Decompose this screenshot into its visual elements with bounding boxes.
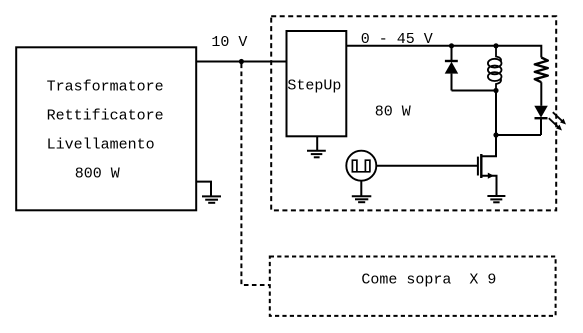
svg-text:Trasformatore: Trasformatore: [47, 79, 164, 96]
wire 10V from B1 to StepUp: [196, 61, 286, 63]
svg-text:Rettificatore: Rettificatore: [47, 108, 164, 125]
node junction at inductor top: [493, 43, 498, 48]
transistor Q1 N-MOSFET: [478, 135, 497, 196]
node junction at diode top: [449, 43, 454, 48]
svg-text:10 V: 10 V: [211, 34, 247, 51]
node junction at inductor bottom: [493, 88, 498, 93]
wire node to MOSFET drain: [495, 135, 497, 156]
dashed box Come sopra X 9: [270, 257, 556, 316]
wire inductor bottom to drain node: [495, 91, 497, 136]
wire diode bottom to inductor bottom: [452, 90, 497, 92]
ground at pulse source: [352, 181, 372, 203]
wire resistor to LED: [540, 82, 542, 106]
wire LED bottom to drain node: [496, 134, 541, 136]
node junction at LED return / drain: [493, 132, 498, 137]
svg-text:80 W: 80 W: [375, 104, 411, 121]
resistor R1: [535, 58, 548, 83]
LED D2 (pointing down): [534, 106, 566, 135]
pulse source V1 (square-wave generator): [346, 151, 376, 181]
svg-text:Livellamento: Livellamento: [47, 136, 155, 153]
LED emission arrow 1: [553, 112, 563, 121]
svg-text:StepUp: StepUp: [287, 78, 341, 95]
node junction on 10V wire: [239, 59, 244, 64]
wire gate drive: [376, 165, 478, 167]
svg-text:Come sopra X 9: Come sopra X 9: [361, 271, 496, 288]
wire 0-45V output bus: [346, 46, 541, 58]
LED emission arrow 2: [549, 118, 559, 127]
ground at MOSFET source: [487, 196, 505, 202]
ground at block B1: [196, 182, 221, 203]
dashed enclosure box (module boundary): [271, 16, 556, 210]
ground at StepUp: [307, 136, 326, 157]
block U1 StepUp: [287, 31, 347, 136]
svg-text:800 W: 800 W: [75, 165, 120, 182]
block B1 Trasformatore/Rettificatore/Livellamento 800W: [16, 47, 196, 210]
dashed wire from node down to Come-sopra box: [241, 64, 269, 286]
diode D1 (freewheel, cathode up): [445, 46, 459, 91]
svg-text:0 - 45 V: 0 - 45 V: [361, 31, 433, 48]
inductor L1: [488, 46, 502, 91]
